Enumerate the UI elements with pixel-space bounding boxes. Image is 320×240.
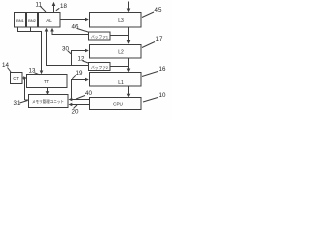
box MU memory unit — [29, 95, 69, 108]
svg-text:CT: CT — [13, 76, 19, 81]
wire CT and MU loop into TT left — [22, 76, 28, 100]
wire AL to L3 — [60, 18, 89, 22]
wire buffer1 to AL bottom — [50, 28, 88, 35]
label 45 — [142, 7, 162, 18]
box AL U11 — [39, 13, 61, 28]
wire 30 from buffer2 junction up into L2 — [72, 49, 89, 66]
svg-text:バッファ1: バッファ1 — [91, 34, 109, 39]
wire buffer2 to AL bottom — [45, 28, 89, 66]
label 31 — [14, 100, 28, 107]
label 14 — [2, 62, 11, 72]
svg-text:19: 19 — [76, 70, 83, 77]
label 40 — [76, 90, 92, 99]
wire 40 CPU to MU upper — [69, 98, 90, 102]
svg-text:バッファ2: バッファ2 — [91, 65, 109, 70]
svg-text:46: 46 — [72, 24, 79, 31]
wire BN rail down into TT — [18, 27, 44, 74]
label 30 — [62, 46, 71, 54]
label 19 — [72, 70, 83, 79]
svg-text:31: 31 — [14, 100, 21, 107]
wire trunk L3 to L2 — [127, 27, 131, 44]
box L2 — [90, 45, 142, 59]
wire arrow 18 up from AL — [52, 2, 56, 12]
wire 19 branch up into L1 — [72, 78, 89, 100]
svg-text:18: 18 — [60, 3, 67, 10]
label 13 — [29, 68, 40, 75]
box TT — [27, 75, 68, 88]
wire TT into MU — [46, 88, 50, 95]
svg-text:L3: L3 — [118, 18, 124, 24]
box buffer1 (46) — [89, 32, 111, 40]
wire trunk into L3 top — [127, 2, 131, 13]
label 12 — [78, 56, 89, 64]
box buffer2 (12) — [89, 63, 111, 71]
box CPU — [90, 98, 142, 110]
svg-text:L1: L1 — [118, 80, 124, 86]
label 10 — [143, 92, 166, 102]
label 20 — [72, 105, 79, 116]
wire 20 CPU to MU lower — [69, 103, 90, 107]
label 46 — [72, 24, 89, 33]
label 11 — [36, 2, 47, 13]
svg-text:メモリ管理ユニット: メモリ管理ユニット — [32, 98, 64, 105]
box L3 — [90, 13, 142, 28]
wire trunk L2 to L1 — [127, 58, 131, 72]
svg-text:TT: TT — [44, 79, 50, 84]
label 16 — [142, 66, 166, 77]
svg-text:AL: AL — [46, 18, 52, 23]
box BN1 — [15, 13, 26, 28]
svg-text:17: 17 — [156, 36, 163, 43]
wire buffer2 to trunk — [110, 66, 129, 68]
svg-text:16: 16 — [159, 66, 166, 73]
svg-text:10: 10 — [159, 92, 166, 99]
svg-text:BN1: BN1 — [16, 18, 25, 23]
wire buffer1 to trunk — [110, 35, 129, 37]
label 17 — [142, 36, 163, 48]
svg-text:BN2: BN2 — [28, 18, 37, 23]
svg-text:20: 20 — [72, 109, 79, 116]
wire trunk L1 to CPU — [127, 86, 131, 97]
box CT — [11, 73, 23, 84]
svg-text:CPU: CPU — [113, 101, 123, 106]
label 18 — [56, 3, 68, 11]
svg-text:L2: L2 — [118, 50, 124, 56]
svg-text:40: 40 — [85, 90, 92, 97]
box L1 — [90, 73, 142, 87]
box BN2 — [27, 13, 38, 28]
svg-text:45: 45 — [155, 7, 162, 14]
